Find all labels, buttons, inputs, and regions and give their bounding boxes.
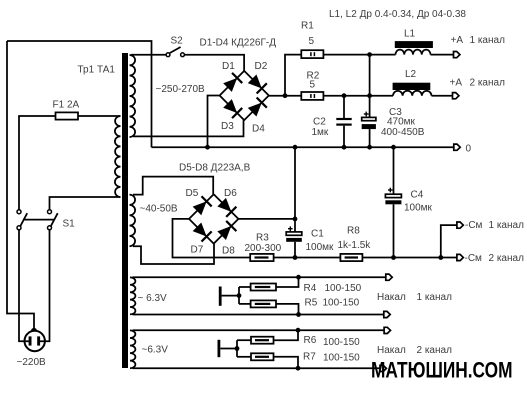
label D8 [222, 246, 235, 257]
diode D8 [217, 221, 236, 240]
svg-text:S1: S1 [63, 219, 76, 230]
transformer secondary winding ~250-270V [130, 55, 136, 137]
svg-text:C1: C1 [311, 229, 324, 240]
wire bridge2 plus vertex [238, 218, 295, 220]
label R2 [307, 71, 320, 82]
wire filament1 bottom [133, 314, 384, 316]
wire C4 top [393, 147, 395, 194]
wire top-left from plug ground to 0 bus [7, 41, 152, 147]
wire to -Cm ch1 [441, 225, 457, 257]
terminal -Cm 2 канал [457, 254, 463, 260]
label Тр1 ТА1 [78, 65, 116, 76]
svg-text:~220В: ~220В [17, 357, 47, 368]
junction R4 R5 mid [237, 293, 242, 298]
svg-text:L1, L2 Др 0.4-0.34, Др 04-0.3: L1, L2 Др 0.4-0.34, Др 04-0.38 [329, 9, 466, 20]
wire 0 bus [152, 146, 454, 148]
capacitor C2 [336, 118, 351, 126]
wire secondary top to S2 [131, 54, 166, 56]
svg-text:R8: R8 [347, 226, 360, 237]
wire R2 input [285, 95, 301, 97]
label R5 [305, 298, 318, 309]
label ~6.3V ch2 [142, 345, 169, 356]
wire bridge1 minus to 0 bus [208, 96, 220, 148]
inductor L1 [395, 41, 433, 55]
svg-text:F1 2A: F1 2A [53, 100, 80, 111]
svg-text:Тр1 ТА1: Тр1 ТА1 [78, 65, 116, 76]
capacitor C3 [362, 117, 376, 129]
wire bridge1 plus to R1 R2 node [269, 95, 285, 97]
switch S1 arms and link [20, 213, 57, 226]
label D1 [222, 61, 235, 72]
inductor L2 [393, 83, 432, 96]
label D2 [255, 61, 268, 72]
watermark МАТЮШИН.СОМ [371, 358, 513, 383]
junction C3 on bus [367, 145, 372, 150]
junction C4 bottom [391, 255, 396, 260]
label ~ 6.3V ch1 [138, 293, 168, 304]
label D6 [224, 188, 237, 199]
label R1 [301, 21, 314, 32]
label F1 2A [53, 100, 80, 111]
svg-text:+А: +А [450, 78, 463, 89]
junction bridge1 minus on bus [205, 145, 210, 150]
diode D5 [193, 196, 212, 215]
label S2 [171, 36, 184, 47]
wire C4 bottom [393, 204, 395, 257]
svg-text:2 канал: 2 канал [417, 345, 453, 356]
wire chassis to R6 R7 node [220, 348, 237, 350]
wire R4 right [276, 277, 299, 287]
svg-text:1мк: 1мк [312, 127, 329, 138]
transformer Tr1 core [122, 53, 128, 368]
junction R2 out [367, 93, 372, 98]
svg-text:S2: S2 [171, 36, 184, 47]
resistor R3 [250, 254, 273, 261]
capacitor C1 plus [288, 226, 293, 231]
wire R1 to L1 [323, 54, 395, 56]
capacitor C3 plus [364, 112, 369, 117]
svg-text:L2: L2 [405, 69, 417, 80]
fuse F1 2A [56, 112, 79, 119]
wire R1-R2 tie [369, 55, 371, 96]
wire secondary bottom to bridge1 bottom [133, 120, 244, 136]
label D4 [252, 124, 265, 135]
diode D3 [223, 99, 242, 118]
junction R1 R2 input [283, 93, 288, 98]
svg-text:D3: D3 [221, 121, 234, 132]
terminal накал ch1 bottom [384, 311, 390, 317]
label R3 [256, 232, 269, 243]
label -См 1 канал [465, 220, 524, 231]
wire C3 bottom [369, 129, 371, 147]
svg-text:-См: -См [465, 220, 483, 231]
terminal +A 2 канал [453, 93, 459, 99]
svg-text:100-150: 100-150 [323, 352, 360, 363]
svg-text:1 канал: 1 канал [417, 292, 453, 303]
junction C4 on bus [391, 145, 396, 150]
transformer secondary winding ~40-50V [130, 195, 136, 247]
label R5 value 100-150 [323, 298, 360, 309]
terminal накал ch2 top [384, 327, 390, 333]
terminal накал ch2 bottom [380, 365, 386, 371]
label R2 value 5 [310, 80, 316, 91]
diode D2 [248, 75, 267, 94]
switch S2 [166, 47, 184, 57]
transformer filament winding ~6.3V ch2 [130, 330, 135, 368]
svg-text:2 канал: 2 канал [489, 253, 525, 264]
wire R3 to C1 node [274, 257, 341, 259]
label C2 value 1мк [312, 127, 329, 138]
wire C1 top [294, 219, 296, 232]
svg-text:L1: L1 [404, 29, 416, 40]
wire R5 left [239, 303, 251, 305]
resistor R6 [251, 337, 274, 344]
wire fuse to primary winding [78, 115, 121, 117]
svg-text:100мк: 100мк [404, 203, 433, 214]
label L1 [404, 29, 416, 40]
diode D7 [193, 223, 212, 242]
svg-text:1 канал: 1 канал [489, 220, 525, 231]
capacitor C4 plus [388, 188, 393, 193]
svg-text:100-150: 100-150 [323, 298, 360, 309]
label ~220В [17, 357, 47, 368]
svg-text:100-150: 100-150 [323, 337, 360, 348]
capacitor C1 [286, 232, 302, 242]
svg-text:C4: C4 [411, 190, 424, 201]
diode D6 [217, 198, 236, 217]
wire R7 right [274, 357, 299, 368]
label Накал 2 канал [377, 345, 452, 356]
svg-text:100-150: 100-150 [325, 283, 362, 294]
switch S1 pole1 contacts [17, 210, 21, 230]
bridge D5-D8 diamond [189, 194, 238, 243]
wire plug left prong to S1 pole1 [19, 230, 30, 341]
junction C1 bottom [293, 255, 298, 260]
svg-text:~250-270В: ~250-270В [156, 84, 206, 95]
label D1-D4 КД226Г-Д [200, 38, 277, 49]
svg-text:100мк: 100мк [306, 242, 335, 253]
svg-text:R6: R6 [304, 335, 317, 346]
wire filament2 top [133, 329, 385, 331]
svg-text:R1: R1 [301, 21, 314, 32]
junction bridge2 plus C1 top [293, 217, 298, 222]
label 0 [466, 144, 472, 155]
transformer filament winding ~6.3V ch1 [130, 277, 135, 314]
svg-text:C2: C2 [313, 117, 326, 128]
terminal 0 [454, 144, 460, 150]
svg-text:D7: D7 [191, 245, 204, 256]
svg-text:R3: R3 [256, 232, 269, 243]
svg-text:-См: -См [465, 253, 483, 264]
label ~250-270В [156, 84, 206, 95]
wire C2 bottom [343, 126, 345, 148]
resistor R8 [340, 254, 362, 261]
label R6 value 100-150 [323, 337, 360, 348]
svg-text:R5: R5 [305, 298, 318, 309]
wire C3 top [369, 96, 371, 118]
wire S1 pole1 to fuse [19, 116, 56, 210]
svg-text:~6.3V: ~6.3V [142, 345, 169, 356]
svg-text:400-450В: 400-450В [381, 127, 425, 138]
label D7 [191, 245, 204, 256]
svg-text:~ 6.3V: ~ 6.3V [138, 293, 168, 304]
label R4 value 100-150 [325, 283, 362, 294]
resistor R7 [251, 353, 274, 360]
plug XP1 ~220V [25, 331, 45, 351]
svg-text:Накал: Накал [377, 292, 406, 303]
label S1 [63, 219, 76, 230]
wire 40-50V bottom to bridge2 bottom [133, 244, 214, 264]
svg-text:1 канал: 1 канал [470, 35, 506, 46]
wire bridge2 plus to 0 bus [294, 147, 296, 219]
junction R1 out [367, 52, 372, 57]
wire R6 right [274, 330, 299, 340]
label R8 value 1k-1.5k [338, 240, 372, 251]
junction C2 on bus [342, 145, 347, 150]
resistor R1 [301, 50, 323, 58]
label R7 value 100-150 [323, 352, 360, 363]
svg-text:D1: D1 [222, 61, 235, 72]
svg-text:D2: D2 [255, 61, 268, 72]
wire R4 left [239, 286, 251, 288]
capacitor C4 [385, 194, 401, 204]
label R7 [303, 352, 316, 363]
wire C2 top [343, 96, 345, 118]
terminal +A 1 канал [454, 52, 460, 58]
label Накал 1 канал [377, 292, 452, 303]
svg-text:2 канал: 2 канал [470, 78, 506, 89]
junction R6 R7 mid [235, 346, 240, 351]
label R1 value 5 [309, 36, 315, 47]
terminal накал ch1 top [386, 274, 392, 280]
label R6 [304, 335, 317, 346]
svg-text:D8: D8 [222, 246, 235, 257]
svg-text:МАТЮШИН.СОМ: МАТЮШИН.СОМ [371, 358, 513, 383]
label C4 value 100мк [404, 203, 433, 214]
svg-text:Накал: Накал [377, 345, 406, 356]
wire left bus down to plug [7, 41, 34, 331]
svg-text:5: 5 [309, 36, 315, 47]
wire up to R1 [285, 55, 301, 96]
wire C1 bottom [294, 242, 296, 258]
svg-text:470мк: 470мк [387, 117, 416, 128]
svg-text:5: 5 [310, 80, 316, 91]
diode D4 [248, 97, 267, 116]
wire S2 to bridge top [184, 55, 244, 71]
svg-text:D6: D6 [224, 188, 237, 199]
label C3 [389, 107, 402, 118]
label ~40-50В [140, 203, 178, 214]
junction filament2 top [296, 328, 301, 333]
wire R6 R7 left tie [236, 340, 238, 357]
label R8 [347, 226, 360, 237]
wire chassis to R4 R5 node [222, 295, 239, 297]
wire plug right prong to S1 pole2 [39, 230, 50, 341]
svg-text:D4: D4 [252, 124, 265, 135]
svg-text:R4: R4 [304, 283, 317, 294]
svg-text:D1-D4 КД226Г-Д: D1-D4 КД226Г-Д [200, 38, 277, 49]
diode D1 [223, 73, 242, 92]
junction C2 top [342, 93, 347, 98]
label -См 2 канал [465, 253, 525, 264]
junction filament1 bottom [296, 312, 301, 317]
svg-text:~40-50В: ~40-50В [140, 203, 178, 214]
junction -Cm split [438, 255, 443, 260]
chassis bar ch1 [219, 287, 222, 306]
wire R6 left [237, 339, 251, 341]
terminal -Cm 1 канал [457, 222, 463, 228]
label L1, L2 Др 0.4-0.34, Др 04-0.38 [329, 9, 466, 20]
wire R4 R5 left tie [238, 287, 240, 304]
label R3 value 200-300 [245, 243, 282, 254]
wire R8 to -Cm bus [362, 257, 457, 259]
svg-text:1k-1.5k: 1k-1.5k [338, 240, 372, 251]
wire S1 pole2 to primary winding bottom [50, 197, 121, 210]
junction filament2 bottom [296, 366, 301, 371]
label C2 [313, 117, 326, 128]
svg-text:200-300: 200-300 [245, 243, 282, 254]
wire bridge2 minus to R3 [173, 219, 251, 258]
bridge D1-D4 diamond [220, 71, 269, 120]
wire L2 to +A ch2 terminal [432, 95, 453, 97]
label C3 value 400-450В [381, 127, 425, 138]
resistor R5 [251, 300, 276, 307]
wire R5 right [276, 304, 299, 315]
label L2 [405, 69, 417, 80]
resistor R4 [251, 284, 276, 291]
label D5 [186, 188, 199, 199]
wire L1 to +A ch1 terminal [431, 54, 454, 56]
wire 40-50V top to bridge2 [133, 177, 213, 195]
label +А 2 канал [450, 78, 506, 89]
wire R2 to L2 [323, 95, 393, 97]
label C3 value 470мк [387, 117, 416, 128]
resistor R2 [301, 92, 323, 100]
label +А 1 канал [451, 35, 506, 46]
label C4 [411, 190, 424, 201]
wire filament2 bottom [133, 367, 381, 369]
svg-text:D5: D5 [186, 188, 199, 199]
junction filament1 top [296, 275, 301, 280]
junction C1 column on bus [293, 145, 298, 150]
transformer Tr1 primary winding [115, 116, 121, 197]
svg-text:+А: +А [451, 35, 464, 46]
svg-text:0: 0 [466, 144, 472, 155]
svg-text:D5-D8 Д223А,В: D5-D8 Д223А,В [179, 163, 251, 174]
svg-text:R7: R7 [303, 352, 316, 363]
label C1 value 100мк [306, 242, 335, 253]
label R4 [304, 283, 317, 294]
switch S1 pole2 contacts [48, 210, 52, 230]
wire filament1 top [133, 276, 386, 278]
label C1 [311, 229, 324, 240]
label D3 [221, 121, 234, 132]
label D5-D8 Д223А,В [179, 163, 251, 174]
junction plug center pin [31, 328, 37, 334]
wire R7 left [237, 356, 251, 358]
chassis bar ch2 [218, 340, 221, 357]
